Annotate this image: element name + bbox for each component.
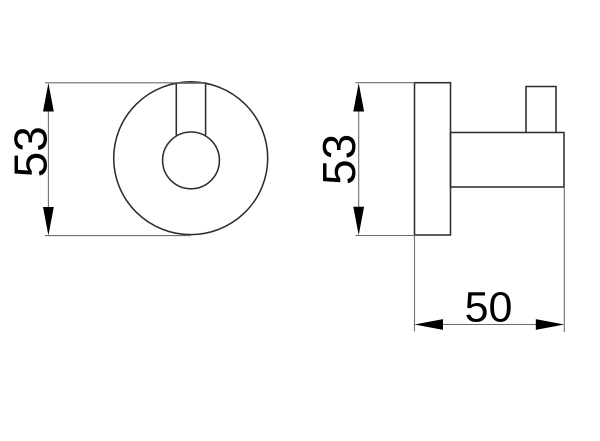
svg-text:53: 53 bbox=[5, 126, 57, 177]
svg-text:53: 53 bbox=[313, 134, 365, 185]
svg-text:50: 50 bbox=[465, 284, 513, 332]
